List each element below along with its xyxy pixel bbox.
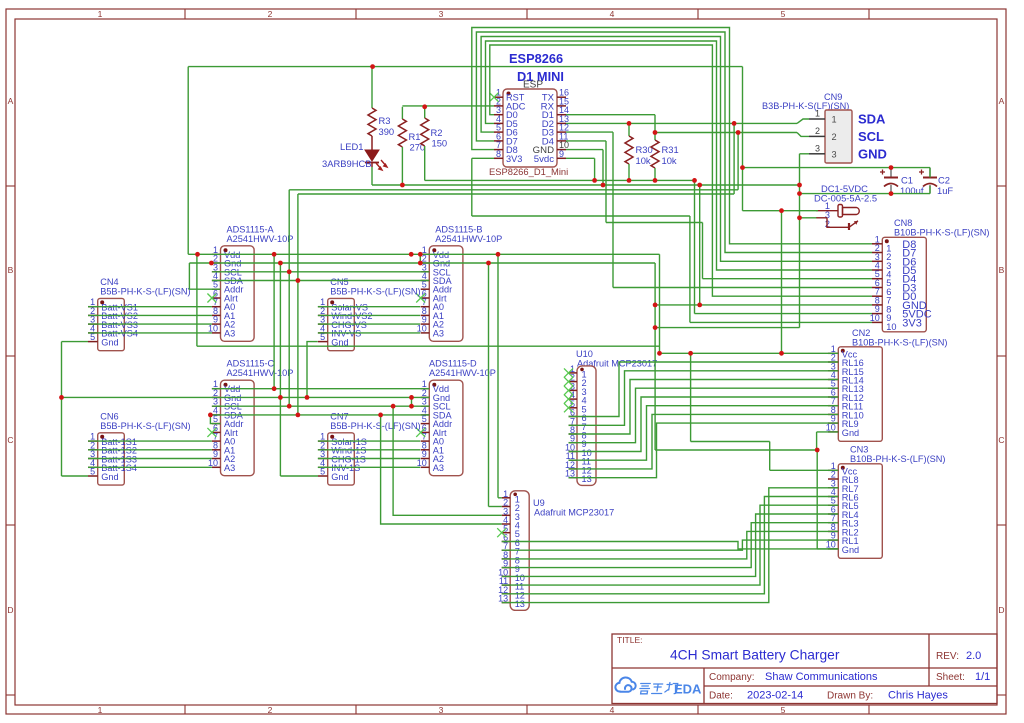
ESP left pin stubs: [494, 97, 503, 158]
U10 pin1 marker dot: [580, 368, 584, 372]
svg-text:5: 5: [781, 705, 786, 715]
wire D0 loop to CN8: [490, 45, 872, 296]
wire Batt-1S2 to ADS1115-C: [88, 449, 212, 451]
IC U10 body: [577, 366, 596, 486]
resistor R3 lead top: [371, 68, 373, 108]
wire Vcc horizontal to CN3: [691, 441, 770, 443]
wire Vcc rise to CN3: [769, 442, 771, 471]
wire ESP pin9 5vdc: [566, 157, 595, 159]
wire LED cathode drop: [371, 167, 373, 185]
wire SCL riser: [737, 133, 739, 190]
U9 inside pin numbers: [515, 494, 525, 609]
svg-text:ESP8266_D1_Mini: ESP8266_D1_Mini: [489, 166, 568, 177]
svg-text:A: A: [8, 96, 14, 106]
svg-text:2: 2: [268, 705, 273, 715]
svg-text:ESP8266: ESP8266: [509, 51, 563, 66]
ESP left pin numbers 1-8: [496, 88, 501, 159]
ADS1115-B pin names: [433, 250, 453, 339]
wire 3V3 to CN8 pin10: [690, 321, 872, 323]
svg-text:3: 3: [439, 9, 444, 19]
CN3 pin stubs: [828, 470, 838, 549]
wire U9 pin2: [489, 506, 502, 508]
svg-text:5: 5: [90, 332, 95, 342]
svg-text:R2: R2: [431, 127, 443, 138]
wire SCL rail: [289, 189, 738, 191]
svg-text:1: 1: [98, 9, 103, 19]
wire D8 loop to CN8: [472, 28, 872, 244]
wire capacitor bottom rail: [800, 193, 931, 195]
svg-text:C: C: [7, 435, 13, 445]
wire ADS1115-A addr strap: [189, 263, 220, 289]
svg-text:3: 3: [832, 149, 837, 159]
no-connect X on ADS1115-C Alrt pin: [207, 428, 216, 437]
wire SDA row C-D: [210, 414, 429, 416]
svg-text:C2: C2: [938, 175, 950, 186]
junction Vdd row C: [272, 386, 277, 391]
svg-text:2: 2: [815, 126, 820, 136]
wire U9 pin12 to CN3 RL7: [502, 497, 839, 594]
svg-text:C1: C1: [901, 175, 913, 186]
wire Batt-VS3 to ADS1115-A: [88, 323, 212, 325]
wire CN9 pin3 GND: [800, 153, 810, 155]
capacitor C2: [919, 168, 937, 194]
wire D1 drop: [654, 115, 656, 133]
wire SDA jog to CN9 pin1: [797, 119, 809, 123]
svg-text:1uF: 1uF: [937, 185, 953, 196]
wire D1 line: [566, 114, 655, 116]
wire C2 bottom drop: [929, 186, 931, 194]
svg-text:A3: A3: [224, 463, 235, 473]
svg-text:D: D: [7, 605, 13, 615]
LED LED1: [365, 150, 387, 170]
svg-text:D: D: [998, 605, 1004, 615]
wire left drop to Vdd row: [187, 67, 189, 255]
wire U10 pin11 to CN2 RL11: [569, 406, 839, 461]
svg-text:9: 9: [559, 149, 564, 159]
wire Vcc drop to CN3: [690, 353, 692, 441]
svg-text:5: 5: [320, 332, 325, 342]
connector CN3 body: [838, 464, 882, 559]
wire U10 pin8 to CN2 RL14: [569, 380, 839, 435]
junctions on capacitor bottom rail: [797, 191, 893, 196]
ESP pin1 marker dot: [507, 92, 511, 96]
resistor R30 lead top: [628, 124, 630, 136]
CN4 pin1 marker dot: [100, 300, 104, 304]
svg-text:U10: U10: [576, 349, 593, 359]
svg-text:ADS1115-A: ADS1115-A: [227, 224, 275, 234]
wire 5VDC capacitor rail: [743, 167, 931, 169]
svg-text:R30: R30: [636, 144, 653, 155]
svg-text:10: 10: [208, 458, 218, 468]
wire CN5 Gnd drop: [307, 342, 318, 398]
ESP left pin names: [506, 93, 526, 164]
svg-text:3V3: 3V3: [506, 154, 522, 164]
wire 5VDC to CN8 pin9: [695, 313, 873, 315]
wire CN2 Gnd pin: [817, 431, 839, 433]
wire DC jack pin3: [800, 217, 817, 219]
no-connect X on ADS1115-D Alrt pin: [416, 428, 425, 437]
border row letters left: [7, 96, 13, 615]
svg-text:A3: A3: [433, 463, 444, 473]
wire Gnd row C-D: [62, 396, 430, 398]
wire Gnd bus vertical: [279, 263, 281, 476]
wire R2 bottom drop: [424, 146, 426, 180]
resistor R30: [625, 136, 633, 164]
wire CN3 Vcc pin: [770, 469, 839, 471]
wire 5V rail: [425, 179, 695, 181]
wire U9 pin7 to CN3 RL2: [502, 540, 839, 550]
op-amp U? ESP body: [503, 89, 557, 167]
wire U9 pin6 to CN3 RL1: [502, 542, 839, 549]
CN6 pin stubs: [88, 441, 98, 476]
wire R31 bottom lead: [654, 168, 656, 180]
junctions on GND rail: [400, 183, 802, 188]
wire SDA D2 line: [566, 122, 797, 124]
svg-text:150: 150: [432, 138, 448, 149]
svg-text:1: 1: [832, 115, 837, 125]
CN5 pin stubs: [318, 307, 328, 342]
wire SCL row C-D: [212, 405, 429, 407]
CN8 outside pin numbers: [870, 234, 880, 323]
svg-text:Company:: Company:: [709, 672, 755, 683]
wire D6 loop to CN8: [481, 37, 872, 262]
junctions SDA row C: [208, 413, 383, 418]
ADS1115-D pin names: [433, 384, 453, 473]
svg-text:B: B: [8, 265, 14, 275]
CN8 pin stubs: [872, 244, 882, 323]
wire ESP D3: [566, 131, 613, 133]
svg-text:2023-02-14: 2023-02-14: [747, 690, 803, 702]
wire Vdd drop left: [196, 254, 198, 346]
wire U9 SDA to bus: [381, 415, 502, 524]
svg-text:10: 10: [886, 322, 896, 332]
svg-text:390: 390: [379, 126, 395, 137]
svg-text:3: 3: [815, 143, 820, 153]
svg-text:CN6: CN6: [100, 411, 118, 421]
svg-text:5vdc: 5vdc: [534, 154, 554, 165]
svg-text:A3: A3: [433, 328, 444, 338]
junctions Gnd row C: [59, 395, 414, 400]
svg-text:A2541HWV-10P: A2541HWV-10P: [435, 234, 502, 244]
wire Vdd bus vertical: [273, 254, 275, 388]
svg-text:CN7: CN7: [330, 411, 348, 421]
wire ESP pin8 3V3: [472, 157, 494, 159]
wire U9 pin8 to CN3 RL3: [502, 531, 839, 559]
CN6 pin numbers: [90, 432, 95, 477]
svg-text:Drawn By:: Drawn By:: [827, 691, 873, 702]
CN6 pin names: [101, 437, 137, 482]
CN2 pin names: [842, 349, 864, 438]
svg-text:B10B-PH-K-S-(LF)(SN): B10B-PH-K-S-(LF)(SN): [894, 228, 989, 238]
svg-text:A2541HWV-10P: A2541HWV-10P: [429, 368, 496, 378]
svg-text:B5B-PH-K-S-(LF)(SN): B5B-PH-K-S-(LF)(SN): [330, 286, 420, 296]
wire addr stub ADS1115-D: [411, 397, 413, 406]
svg-text:10k: 10k: [636, 155, 651, 166]
svg-text:Gnd: Gnd: [101, 472, 118, 482]
svg-text:10: 10: [208, 323, 218, 333]
wire C2 top drop: [929, 168, 931, 178]
wire 3V3 drop: [471, 158, 473, 216]
wire addr stub ADS1115-B: [419, 254, 421, 263]
wire R1 bottom lead: [401, 147, 403, 185]
resistor R1: [398, 119, 406, 147]
wire GND cross line: [655, 327, 799, 329]
wire CN2 Vcc row: [660, 352, 839, 354]
wire CN7 pin4 to ADS1115-D: [318, 466, 420, 468]
svg-text:A3: A3: [224, 328, 235, 338]
svg-text:13: 13: [515, 599, 525, 609]
junction R3 top: [370, 64, 375, 69]
CN3 pin1 marker dot: [841, 466, 845, 470]
wire left Gnd vertical: [61, 342, 63, 476]
ADS1115-C pin numbers: [208, 379, 218, 468]
wire GND drop to CN8: [699, 185, 701, 305]
CN2 pin1 marker dot: [841, 349, 845, 353]
CN5 pin1 marker dot: [330, 300, 334, 304]
resistor R2: [421, 118, 429, 146]
junctions on CN2 Vcc row: [657, 351, 784, 356]
junctions SCL row C: [287, 404, 414, 409]
IC U9 body: [510, 491, 529, 611]
no-connect X on U9 pin5: [497, 528, 506, 537]
U9 pin stubs: [502, 498, 511, 603]
svg-text:2.0: 2.0: [966, 650, 981, 662]
junctions on Gnd row: [209, 261, 491, 266]
DC jack DC1 symbol: [816, 205, 859, 231]
svg-text:ADS1115-B: ADS1115-B: [435, 224, 482, 234]
ADS1115-A pin numbers: [208, 245, 218, 334]
wire D4 drop: [605, 141, 607, 223]
wire Gnd row: [189, 262, 655, 264]
ESP right pin names: [533, 93, 555, 165]
CN3 outside pin numbers: [826, 461, 836, 550]
ADS1115-B pin numbers: [417, 245, 427, 334]
wire CN5 pin4 to ADS1115-B: [318, 332, 420, 334]
wire Vdd row C-D: [212, 388, 429, 390]
svg-text:10: 10: [826, 422, 836, 432]
CN4 pin stubs: [88, 307, 98, 342]
ADS1115-C pin names: [224, 384, 244, 473]
wire U10 pin12 to CN2 RL10: [569, 414, 839, 469]
svg-text:Gnd: Gnd: [842, 545, 859, 555]
CN9 pin numbers outside: [815, 109, 820, 154]
svg-text:10k: 10k: [662, 155, 677, 166]
junction SCL row: [287, 269, 292, 274]
svg-text:Gnd: Gnd: [331, 472, 348, 482]
ADS1115-A pin1 marker dot: [224, 248, 228, 252]
svg-text:5: 5: [781, 9, 786, 19]
wire CN5 pin1 to ADS1115-B: [318, 306, 420, 308]
junctions on CN8 GND line: [653, 303, 702, 308]
CN2 outside pin numbers: [826, 344, 836, 433]
ADS1115-C pin stubs: [212, 389, 221, 468]
U10 pin stubs: [569, 373, 578, 478]
resistor R3: [368, 108, 376, 136]
resistor R31 lead top: [654, 133, 656, 141]
wire D3 drop: [612, 132, 614, 287]
wire Batt-1S4 to ADS1115-C: [88, 466, 212, 468]
IC ADS1115-C body: [221, 380, 255, 476]
wire CN5 pin2 to ADS1115-B: [318, 314, 420, 316]
wire ESP GND pin: [566, 149, 603, 151]
svg-text:3V3: 3V3: [902, 317, 922, 329]
border row letters right: [998, 96, 1004, 615]
wire SDA rail: [298, 193, 734, 195]
svg-text:C: C: [998, 435, 1004, 445]
U9 outside pin numbers: [498, 489, 508, 604]
resistor R1 lead top: [401, 107, 403, 119]
CN8 pin1 marker dot: [885, 239, 889, 243]
svg-text:TITLE:: TITLE:: [617, 635, 643, 645]
border column numbers bottom: [98, 705, 786, 715]
title block outline: [612, 634, 997, 704]
CN8 inside pin numbers: [886, 243, 896, 332]
wire Batt-1S3 to ADS1115-C: [88, 458, 212, 460]
svg-text:1: 1: [815, 109, 820, 119]
wire CN3 Gnd pin: [817, 548, 838, 550]
CN5 pin names: [331, 303, 372, 348]
ADS1115-D pin1 marker dot: [432, 383, 436, 387]
connector CN5 body: [328, 298, 355, 350]
wire U10 pin6 to CN2 RL16: [569, 362, 839, 417]
wire Vdd down to CN2 Vcc: [659, 254, 661, 353]
wire Batt-VS4 to ADS1115-A: [88, 332, 212, 334]
wire SCL bus vertical: [288, 190, 290, 406]
wire U9 pin9 to CN3 RL4: [502, 523, 839, 568]
wire ESP GND drop: [602, 150, 604, 185]
wire D4 to CN8 pin5: [703, 278, 873, 280]
svg-text:A2541HWV-10P: A2541HWV-10P: [227, 234, 294, 244]
junctions at DC jack: [779, 208, 802, 220]
ESP right pin stubs: [557, 97, 566, 158]
svg-text:SCL: SCL: [858, 129, 884, 144]
wire Vdd row: [188, 253, 659, 255]
wire ESP 5vdc down: [594, 158, 596, 180]
wire Vdd down to U9 pin1: [497, 254, 499, 497]
wire SDA bus vertical: [297, 194, 299, 415]
LED1 lead from R3: [371, 136, 373, 150]
svg-text:5: 5: [90, 467, 95, 477]
svg-text:100uf: 100uf: [900, 185, 924, 196]
wire CN7 pin3 to ADS1115-D: [318, 458, 420, 460]
IC ADS1115-A body: [221, 246, 255, 341]
svg-text:Chris Hayes: Chris Hayes: [888, 690, 948, 702]
wire U10 pin9 to CN2 RL13: [569, 388, 839, 443]
svg-text:CN8: CN8: [894, 218, 912, 228]
EasyEDA logo CJK text: [639, 683, 678, 694]
svg-text:R3: R3: [379, 115, 391, 126]
svg-text:REV:: REV:: [936, 651, 959, 662]
CN4 pin names: [101, 303, 138, 348]
svg-text:B10B-PH-K-S-(LF)(SN): B10B-PH-K-S-(LF)(SN): [852, 338, 947, 348]
ADS1115-D pin stubs: [421, 389, 430, 468]
junctions on SDA line: [627, 121, 737, 126]
wire D7 loop to CN8: [476, 32, 872, 253]
wire U9 pin1: [498, 497, 502, 499]
svg-text:3ARB9HCB: 3ARB9HCB: [322, 158, 372, 169]
junction Gnd rail CN3: [815, 448, 820, 453]
resistor R31: [651, 140, 659, 168]
wire 5VDC drop to DC jack: [742, 67, 744, 211]
wire 5VDC top rail: [188, 66, 742, 68]
wire Batt-VS2 to ADS1115-A: [88, 314, 212, 316]
ESP right pin numbers 16-9: [559, 88, 569, 159]
CN9 pin numbers inside: [832, 115, 837, 160]
svg-text:2: 2: [832, 132, 837, 142]
wire Gnd to CN7 pin5: [280, 475, 318, 477]
svg-text:3: 3: [439, 705, 444, 715]
svg-text:B5B-PH-K-S-(LF)(SN): B5B-PH-K-S-(LF)(SN): [100, 286, 190, 296]
wire 3V3 down to CN8: [689, 216, 691, 322]
svg-text:1: 1: [98, 705, 103, 715]
no-connect X on ADS1115-B Alrt pin: [416, 294, 425, 303]
CN6 pin1 marker dot: [100, 435, 104, 439]
wire U10 pin7 to CN2 RL15: [569, 371, 839, 426]
svg-text:4: 4: [610, 9, 615, 19]
CN4 pin numbers: [90, 297, 95, 342]
wire CN2 Gnd drop: [816, 432, 818, 450]
svg-text:CN4: CN4: [100, 277, 118, 287]
CN3 pin names: [842, 466, 859, 555]
ADS1115-B pin stubs: [421, 254, 430, 333]
svg-text:8: 8: [496, 149, 501, 159]
U9 pin1 marker dot: [513, 493, 517, 497]
U10 inside pin numbers: [582, 369, 592, 484]
wire CN3 Gnd drop: [816, 450, 818, 549]
wire Batt-VS1 to ADS1115-A: [88, 306, 212, 308]
no-connect X on ADS1115-A Alrt pin: [207, 294, 216, 303]
wire D5 loop to CN8: [486, 41, 873, 270]
svg-text:Gnd: Gnd: [842, 428, 859, 438]
connector CN2 body: [838, 347, 882, 442]
wire U10 pin10 to CN2 RL12: [569, 397, 839, 452]
svg-text:CN3: CN3: [850, 445, 868, 455]
junctions on 5vdc cap rail: [740, 165, 893, 170]
svg-text:R1: R1: [409, 131, 421, 142]
svg-text:EDA: EDA: [674, 682, 702, 697]
wire U9 pin11 to CN3 RL6: [502, 505, 839, 585]
svg-text:Sheet:: Sheet:: [936, 672, 965, 683]
wire GND to CN8 pin8: [655, 304, 872, 306]
wire Vcc rail to CN2: [197, 345, 660, 347]
svg-text:U9: U9: [533, 498, 545, 508]
ADS1115-D pin numbers: [417, 379, 427, 468]
capacitor C1: [880, 168, 898, 194]
svg-text:1/1: 1/1: [975, 671, 990, 683]
CN5 pin numbers: [320, 297, 325, 342]
wire SDA row: [212, 280, 429, 282]
wire SCL row: [212, 271, 429, 273]
border column numbers top: [98, 9, 786, 19]
connector CN8 body: [882, 237, 926, 331]
CN7 pin stubs: [318, 441, 328, 476]
U10 outside pin numbers: [565, 364, 575, 479]
wire CN9 GND down: [799, 154, 801, 328]
ADS1115-A pin names: [224, 250, 244, 339]
junctions on SCL line: [653, 130, 741, 135]
wire U9 pin13 to CN3 RL8: [502, 488, 839, 603]
svg-text:R31: R31: [662, 144, 679, 155]
wire CN6 Gnd: [62, 475, 89, 477]
IC ADS1115-D body: [429, 380, 463, 476]
connector CN9 body: [825, 110, 852, 163]
wire D3 to CN8 pin6: [613, 287, 872, 289]
wire CN7 pin2 to ADS1115-D: [318, 449, 420, 451]
svg-text:Gnd: Gnd: [101, 337, 118, 347]
svg-text:ADS1115-C: ADS1115-C: [227, 359, 275, 369]
wire 5VDC drop to CN8: [694, 180, 696, 313]
svg-text:Adafruit MCP23017: Adafruit MCP23017: [534, 508, 614, 518]
